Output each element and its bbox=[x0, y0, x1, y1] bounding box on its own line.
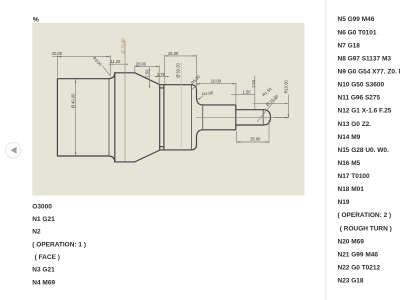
section 4 right face bbox=[235, 105, 237, 130]
left nav button bbox=[5, 143, 21, 159]
dim 25.00 bottom ext left bbox=[236, 131, 238, 143]
section 3 corner round top right bbox=[192, 85, 197, 90]
svg-text:N23 G18: N23 G18 bbox=[338, 278, 364, 285]
section 2 cylinder top edge bbox=[115, 72, 135, 74]
dim 2.50 vertical line bbox=[149, 68, 151, 89]
section 3 top edge bbox=[160, 84, 192, 86]
svg-text:Ø 40.00: Ø 40.00 bbox=[71, 93, 76, 108]
svg-text:( OPERATION: 2 ): ( OPERATION: 2 ) bbox=[338, 212, 392, 219]
dim 40.00 line bbox=[52, 56, 110, 58]
ext x235.9 upper bbox=[235, 83, 237, 104]
dim 1.50 h line bbox=[231, 93, 255, 95]
arrow 3.75 left outside bbox=[156, 76, 159, 77]
svg-text:N14 M9: N14 M9 bbox=[338, 134, 361, 141]
tangent edge dome on section 5 bbox=[262, 110, 264, 125]
dim pointer line y102.5 bbox=[253, 102, 289, 104]
svg-text:N2: N2 bbox=[32, 229, 41, 236]
svg-text:1.50: 1.50 bbox=[243, 90, 252, 95]
fillet R4 bottom to section 4 bbox=[197, 130, 203, 137]
svg-text:R10.00: R10.00 bbox=[284, 80, 289, 94]
dim 25.00 top line bbox=[165, 55, 197, 57]
dome tip arc bbox=[263, 110, 270, 125]
dim 40.00 ext left bbox=[56, 55, 58, 77]
svg-text:N1 G21: N1 G21 bbox=[32, 216, 55, 223]
arrow 40.00 right bbox=[106, 56, 110, 58]
svg-text:N5 G99 M46: N5 G99 M46 bbox=[338, 16, 375, 23]
arrow 3.75 right outside bbox=[165, 76, 168, 77]
dim 20.00 line bbox=[135, 65, 159, 67]
dim 10.00 line bbox=[196, 83, 236, 85]
fillet R3 bottom bbox=[109, 156, 115, 162]
arrow dia40 top bbox=[75, 79, 76, 83]
dim 40.00 ext right bbox=[109, 55, 111, 75]
section 5 bottom edge bbox=[236, 124, 263, 126]
taper top edge bbox=[135, 73, 160, 85]
svg-text:N15 G28 U0. W0.: N15 G28 U0. W0. bbox=[338, 147, 389, 154]
svg-text:25.00: 25.00 bbox=[250, 137, 261, 142]
svg-text:N18 M01: N18 M01 bbox=[338, 186, 365, 193]
groove left wall edge bbox=[159, 85, 161, 151]
svg-text:N20 M69: N20 M69 bbox=[338, 238, 365, 245]
svg-text:40.00: 40.00 bbox=[52, 51, 63, 56]
leader R4.00 bbox=[198, 96, 203, 99]
svg-text:25.00: 25.00 bbox=[168, 51, 179, 56]
arrow dia40 bottom bbox=[75, 152, 76, 156]
svg-text:N10 G50 S3600: N10 G50 S3600 bbox=[338, 82, 385, 89]
divider line bbox=[325, 0, 327, 300]
svg-text:3.75: 3.75 bbox=[157, 72, 166, 77]
fillet R3 top bbox=[109, 73, 115, 79]
centerline bbox=[196, 116, 288, 118]
dim 25.00 top ext left bbox=[164, 55, 166, 76]
section 5 top edge bbox=[236, 109, 263, 111]
groove right wall / section 3 left face bbox=[163, 85, 165, 150]
leader dia16 bbox=[257, 97, 278, 122]
svg-text:1.50: 1.50 bbox=[251, 79, 256, 88]
arrow 25.00 top right bbox=[193, 55, 197, 56]
svg-text:Ø 50.00: Ø 50.00 bbox=[175, 63, 180, 78]
right G-code column bbox=[338, 16, 400, 284]
section 3 right face lower bbox=[196, 137, 198, 145]
svg-text:2.50: 2.50 bbox=[145, 69, 150, 78]
dim R10 vertical line bbox=[287, 95, 289, 119]
svg-text:N3 G21: N3 G21 bbox=[32, 267, 55, 274]
svg-text:N13 G0 Z2.: N13 G0 Z2. bbox=[338, 121, 372, 128]
dim 3.75 line bbox=[155, 76, 170, 78]
arrow 11.20 left bbox=[112, 64, 115, 65]
svg-text:11.20: 11.20 bbox=[110, 59, 121, 64]
tangent edge fillet R3 on section 1 bbox=[108, 79, 110, 156]
svg-text:N19: N19 bbox=[338, 199, 350, 206]
arrow 25.00 top left bbox=[165, 55, 169, 56]
svg-text:N4 M69: N4 M69 bbox=[32, 279, 55, 286]
svg-text:N11 G96 S275: N11 G96 S275 bbox=[338, 95, 381, 102]
svg-text:%: % bbox=[33, 16, 39, 23]
ext x164.5 bbox=[164, 76, 166, 84]
svg-text:( OPERATION: 1 ): ( OPERATION: 1 ) bbox=[32, 241, 86, 248]
drawing canvas bbox=[32, 23, 304, 196]
arrow 20.00 right bbox=[156, 66, 160, 67]
dim 25.00 top ext right bbox=[195, 55, 197, 90]
leader R3.00 bbox=[102, 66, 110, 77]
percent sign bbox=[33, 16, 39, 23]
svg-text:N6 G0 T0101: N6 G0 T0101 bbox=[338, 29, 377, 36]
svg-text:N17 T0100: N17 T0100 bbox=[338, 173, 371, 180]
dim 25.00 bottom line bbox=[237, 141, 269, 143]
section 1 cylinder Ø40 outline bbox=[57, 79, 109, 156]
arrow leader R4 bbox=[197, 98, 201, 100]
leader R5.00 corner bbox=[191, 84, 198, 91]
ext shared x159 bbox=[158, 65, 160, 85]
tangent edges bbox=[109, 79, 263, 156]
section 3 corner round bottom right bbox=[192, 145, 197, 150]
tangent edge corner round section 3 bbox=[191, 85, 193, 150]
left nav arrow bbox=[11, 147, 17, 154]
arrow 10.00 right bbox=[232, 83, 236, 84]
dim dia73 orange line bbox=[124, 41, 126, 162]
svg-text:N12 G1 X-1.6 F.25: N12 G1 X-1.6 F.25 bbox=[338, 108, 392, 115]
section 2 cylinder bottom edge bbox=[115, 161, 135, 163]
arrowheads bbox=[57, 55, 289, 156]
svg-text:N8 G97 S1137 M3: N8 G97 S1137 M3 bbox=[338, 55, 392, 62]
fillet R4 top to section 4 bbox=[197, 98, 203, 105]
step face sec1/sec2 bbox=[114, 73, 116, 162]
dim 11.20 line bbox=[109, 63, 128, 65]
svg-text:10.00: 10.00 bbox=[211, 79, 222, 84]
svg-text:N16 M5: N16 M5 bbox=[338, 160, 361, 167]
arrow 25.00 bottom right bbox=[265, 141, 269, 142]
section 4 top edge bbox=[203, 104, 236, 106]
svg-text:Ø 73.00: Ø 73.00 bbox=[121, 38, 126, 54]
arrow pointer y103.3 bbox=[285, 103, 289, 104]
left G-code block bbox=[32, 203, 86, 286]
arrow R10 bottom bbox=[288, 114, 289, 118]
arrow centerline ext bbox=[285, 117, 288, 118]
dim 25.00 bottom ext right bbox=[268, 120, 270, 144]
svg-text:20.00: 20.00 bbox=[136, 61, 147, 66]
arrow 10.00 left bbox=[196, 83, 200, 84]
arrow 11.20 right bbox=[125, 64, 128, 65]
svg-text:O3000: O3000 bbox=[32, 203, 52, 210]
dim 20.00 ext left bbox=[134, 65, 136, 72]
groove bottom edge bottom side bbox=[160, 146, 164, 148]
svg-text:( FACE ): ( FACE ) bbox=[35, 254, 60, 261]
text dia 73.00 orange rotated bbox=[121, 38, 126, 54]
arrow 40.00 left bbox=[57, 56, 61, 58]
svg-text:N7 G18: N7 G18 bbox=[338, 42, 361, 49]
tangent edge fillet R4 on section 4 bbox=[202, 105, 204, 130]
section 3 right face upper bbox=[196, 90, 198, 98]
arrow 25.00 bottom left bbox=[237, 141, 241, 142]
dim dia50 vertical line bbox=[180, 62, 182, 150]
svg-text:N21 G99 M46: N21 G99 M46 bbox=[338, 252, 379, 259]
svg-text:N22 G0 T0212: N22 G0 T0212 bbox=[338, 265, 381, 272]
centerline ext right bbox=[274, 117, 289, 119]
svg-text:( ROUGH TURN ): ( ROUGH TURN ) bbox=[340, 225, 392, 232]
arrow 2.50 top bbox=[149, 68, 150, 71]
taper bottom edge bbox=[135, 150, 160, 162]
section 3 bottom edge bbox=[160, 149, 192, 151]
section 4 bottom edge bbox=[203, 129, 236, 131]
arrow 20.00 left bbox=[135, 66, 139, 67]
svg-text:N9 G0 G54 X77. Z0. M8: N9 G0 G54 X77. Z0. M8 bbox=[338, 69, 400, 76]
ext x254.8 vertical bbox=[254, 76, 256, 109]
groove bottom edge top side bbox=[160, 87, 164, 89]
dim dia40 vertical line inside sec1 bbox=[75, 79, 77, 156]
arrow 2.50 bottom bbox=[149, 85, 150, 88]
